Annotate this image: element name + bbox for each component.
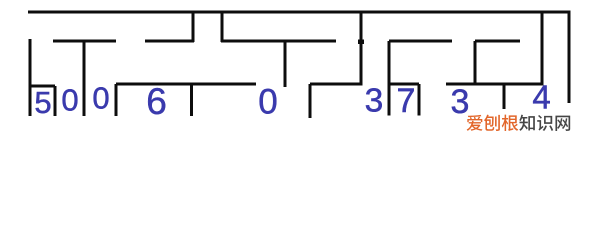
wire: vertical V3 from top bus — [360, 11, 363, 86]
svg-text:0: 0 — [61, 83, 78, 118]
watermark char 刨 (pao) — [484, 115, 500, 131]
wire: vertical V4 from top bus — [541, 11, 544, 86]
svg-text:0: 0 — [258, 83, 277, 122]
svg-text:6: 6 — [146, 81, 167, 122]
wire: hanging tick from segment C — [284, 41, 287, 87]
wire: vertical V2 from top bus — [221, 11, 224, 43]
wire: right edge vertical — [568, 11, 571, 104]
node: ink knot on V3 at level-2 — [358, 40, 364, 45]
watermark char 识 (shi) — [537, 115, 553, 131]
watermark char 网 (wang) — [555, 116, 570, 131]
wire: drop tick from segment A — [83, 41, 86, 116]
wire: level-3 segment G — [310, 83, 361, 86]
wire: left tall vertical — [29, 39, 32, 116]
wire: top horizontal bus — [28, 11, 569, 14]
svg-text:3: 3 — [365, 83, 384, 120]
wire: drop at left of segment G — [309, 84, 312, 118]
wire: vertical V1 from top bus — [192, 11, 195, 43]
watermark char 知 (zhi) — [519, 115, 535, 131]
wire: long vertical from segment D — [388, 41, 391, 116]
wire: drop from segment E — [474, 41, 477, 84]
watermark char 根 (gen) — [502, 115, 519, 131]
svg-text:0: 0 — [92, 81, 109, 116]
wire: cap over digit 7 — [389, 83, 419, 86]
wire: drop tick on segment H — [503, 84, 506, 109]
wire: tick on segment F — [190, 84, 193, 116]
svg-text:7: 7 — [397, 82, 416, 120]
svg-text:5: 5 — [34, 85, 51, 120]
wire: corner drop at left of segment F — [115, 84, 118, 116]
wire: level-2 segment D — [389, 40, 452, 43]
wire: cap over digit 5 — [30, 85, 55, 88]
wire: level-2 segment E — [475, 40, 520, 43]
wire: level-2 segment B — [145, 40, 194, 43]
watermark 爱刨根知识网 — [467, 115, 571, 131]
svg-text:3: 3 — [451, 83, 470, 121]
wire: tick right of digit 7 — [418, 84, 421, 116]
watermark char 爱 (ai) — [467, 115, 483, 131]
wire: level-2 segment C — [221, 40, 336, 43]
wire: tick right of digit 5 — [54, 86, 57, 116]
wire: level-2 segment A — [53, 40, 116, 43]
wire: level-3 segment H — [446, 83, 542, 86]
wire: level-3 segment F — [116, 83, 256, 86]
svg-text:4: 4 — [532, 79, 550, 116]
